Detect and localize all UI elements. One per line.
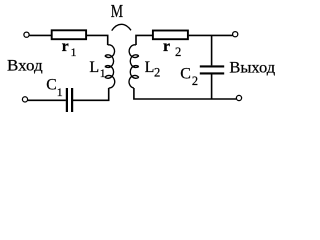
terminal output bottom xyxy=(236,95,241,100)
terminal input top xyxy=(24,32,29,37)
resistor r1 xyxy=(52,30,86,39)
wire L2 bottom to T4 xyxy=(134,88,237,99)
svg-text:r: r xyxy=(62,38,69,55)
svg-text:L: L xyxy=(145,59,155,76)
svg-text:C: C xyxy=(46,76,56,93)
capacitor C2 xyxy=(200,66,224,73)
wire r1 to L1 top xyxy=(87,35,108,45)
wire L1 bottom to C1 xyxy=(73,88,109,100)
capacitor C1 xyxy=(67,88,72,112)
wire r2 to T3 xyxy=(189,34,233,36)
terminal output top xyxy=(233,32,238,37)
inductor L2 xyxy=(129,45,139,88)
svg-text:2: 2 xyxy=(154,65,160,79)
terminal input bottom xyxy=(22,97,27,102)
wire C2 bottom branch xyxy=(211,74,213,99)
svg-text:1: 1 xyxy=(100,66,106,80)
svg-text:1: 1 xyxy=(57,85,63,99)
svg-text:Вход: Вход xyxy=(7,57,43,74)
svg-text:2: 2 xyxy=(192,74,198,88)
wire C1 to T2 xyxy=(28,99,66,101)
svg-text:L: L xyxy=(89,59,99,76)
resistor r2 xyxy=(153,31,188,40)
svg-text:Выход: Выход xyxy=(229,60,275,77)
M coupling arc xyxy=(112,24,131,30)
wire C2 top branch xyxy=(211,35,213,65)
svg-text:2: 2 xyxy=(175,45,181,59)
svg-text:C: C xyxy=(180,66,191,83)
wire L2 top to r2 xyxy=(136,35,153,45)
svg-text:М: М xyxy=(111,1,123,21)
inductor L1 xyxy=(105,45,115,88)
svg-text:1: 1 xyxy=(71,45,77,59)
wire T1 to r1 xyxy=(29,34,52,36)
svg-text:r: r xyxy=(163,38,170,55)
